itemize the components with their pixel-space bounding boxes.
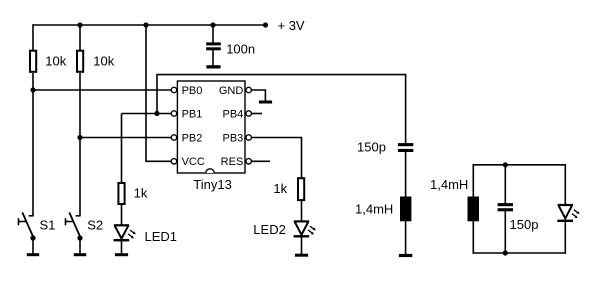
wire PB1 down to R3 bbox=[121, 114, 123, 183]
switch S2 bbox=[66, 212, 81, 238]
pin PB4 circle bbox=[246, 111, 251, 116]
diode LED1 bbox=[114, 225, 136, 241]
wire PB4 stub bbox=[251, 113, 262, 115]
node junction PB1/tank feed bbox=[154, 111, 159, 116]
pin RES circle bbox=[246, 159, 251, 164]
wire LED1 to ground bbox=[121, 241, 123, 254]
wire L1 to ground bbox=[405, 221, 407, 254]
svg-text:PB0: PB0 bbox=[182, 85, 203, 97]
node receiver bottom junction bbox=[503, 250, 508, 255]
svg-text:10k: 10k bbox=[45, 54, 66, 69]
svg-text:GND: GND bbox=[219, 85, 244, 97]
svg-text:PB4: PB4 bbox=[223, 108, 244, 120]
node rail junction at R2 column bbox=[77, 22, 82, 27]
node rail junction at VCC column bbox=[143, 22, 148, 27]
node S2 contact dot bbox=[77, 235, 82, 240]
wire receiver loop right upper bbox=[564, 164, 566, 206]
svg-text:PB1: PB1 bbox=[182, 108, 203, 120]
node receiver top junction bbox=[503, 162, 508, 167]
resistor R1 10k bbox=[30, 51, 36, 72]
svg-text:10k: 10k bbox=[93, 54, 114, 69]
resistor R4 1k bbox=[298, 178, 304, 200]
wire rail to R2 bbox=[79, 24, 81, 50]
switch S1 bbox=[19, 212, 34, 238]
wire S1 to ground bbox=[32, 238, 34, 254]
node S1 contact dot bbox=[30, 235, 35, 240]
wire receiver loop right lower bbox=[564, 221, 566, 254]
wire RES stub bbox=[251, 160, 270, 162]
pin PB2 circle bbox=[171, 135, 176, 140]
capacitor C2 150p (series tank) bbox=[398, 143, 413, 152]
wire R4 to LED2 bbox=[301, 201, 303, 222]
svg-text:1k: 1k bbox=[273, 181, 287, 196]
svg-text:1,4mH: 1,4mH bbox=[355, 201, 393, 216]
pin PB3 circle bbox=[246, 135, 251, 140]
wire R2 to S2 bbox=[79, 73, 81, 216]
wire PB0 net bbox=[33, 89, 171, 91]
wire GND pin to ground bbox=[251, 90, 265, 101]
svg-text:100n: 100n bbox=[226, 41, 255, 56]
inductor L2 1.4mH bbox=[468, 197, 480, 222]
wire rail to R1 bbox=[32, 24, 34, 50]
node junction PB2/R2/S2 bbox=[77, 135, 82, 140]
ground (LED2) bbox=[295, 254, 308, 257]
ground (LED1) bbox=[115, 253, 128, 256]
svg-text:1,4mH: 1,4mH bbox=[430, 177, 468, 192]
ground (IC GND) bbox=[259, 101, 272, 104]
svg-text:PB3: PB3 bbox=[223, 132, 244, 144]
capacitor C3 150p (receiver) bbox=[498, 203, 513, 211]
wire PB3 net to R4 bbox=[251, 138, 301, 178]
svg-text:1k: 1k bbox=[134, 186, 148, 201]
wire receiver loop left bbox=[472, 164, 474, 254]
diode LED2 bbox=[294, 221, 316, 237]
wire VCC column from rail bbox=[146, 24, 171, 161]
svg-text:LED1: LED1 bbox=[145, 229, 178, 244]
svg-text:S1: S1 bbox=[40, 217, 56, 232]
svg-text:VCC: VCC bbox=[182, 156, 205, 168]
wire PB1 net to LED1 branch bbox=[122, 113, 172, 115]
svg-text:150p: 150p bbox=[357, 139, 386, 154]
node rail junction at 100n bbox=[210, 22, 215, 27]
wire R3 to LED1 bbox=[121, 205, 123, 226]
node junction PB0/R1/S1 bbox=[30, 87, 35, 92]
pin VCC circle bbox=[171, 159, 176, 164]
wire LED2 to ground bbox=[301, 237, 303, 254]
resistor R3 1k bbox=[118, 183, 124, 204]
pin PB1 circle bbox=[171, 111, 176, 116]
wire C3 top lead bbox=[504, 165, 506, 204]
svg-text:+ 3V: + 3V bbox=[278, 18, 305, 33]
inductor L1 1.4mH bbox=[400, 197, 411, 222]
diode LED3 (receiver) bbox=[557, 205, 579, 222]
wire PB1 feed over IC to tank bbox=[157, 75, 406, 144]
wire +3V supply rail bbox=[33, 24, 266, 26]
svg-text:S2: S2 bbox=[87, 217, 103, 232]
ground (S2) bbox=[74, 253, 86, 256]
op IC U1 Tiny13 body bbox=[177, 81, 245, 173]
wire C3 bottom lead bbox=[504, 211, 506, 253]
wire receiver loop top bbox=[473, 164, 565, 166]
svg-text:150p: 150p bbox=[510, 217, 539, 232]
ground (L1) bbox=[399, 254, 412, 257]
ground (C1) bbox=[206, 65, 220, 68]
svg-text:Tiny13: Tiny13 bbox=[193, 177, 232, 192]
svg-text:LED2: LED2 bbox=[253, 222, 286, 237]
pin PB0 circle bbox=[171, 87, 176, 92]
resistor R2 10k bbox=[77, 51, 83, 72]
wire PB2 net bbox=[80, 137, 171, 139]
wire R1 to S1 bbox=[32, 73, 34, 216]
node supply terminal dot bbox=[263, 22, 268, 27]
svg-text:PB2: PB2 bbox=[182, 132, 203, 144]
wire S2 to ground bbox=[79, 238, 81, 254]
wire C2 to L1 bbox=[405, 152, 407, 198]
wire rail to C1 bbox=[212, 24, 214, 43]
wire C1 to ground bbox=[212, 50, 214, 66]
wire receiver loop bottom bbox=[473, 252, 565, 254]
pin GND circle bbox=[246, 87, 251, 92]
svg-text:RES: RES bbox=[221, 156, 244, 168]
capacitor C1 100n bbox=[206, 42, 221, 50]
ground (S1) bbox=[27, 253, 39, 256]
